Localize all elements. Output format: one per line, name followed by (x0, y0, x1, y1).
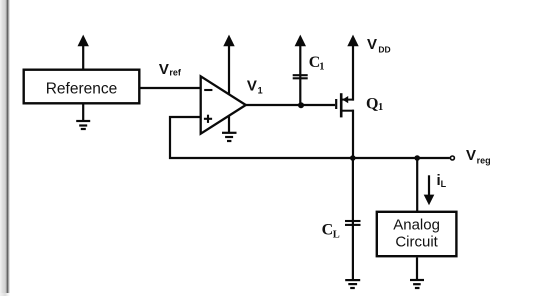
svg-text:V: V (159, 61, 169, 78)
svg-text:L: L (441, 179, 447, 189)
svg-text:C: C (322, 221, 334, 238)
svg-text:Reference: Reference (46, 81, 118, 98)
svg-text:1: 1 (378, 102, 383, 113)
svg-text:1: 1 (319, 62, 324, 73)
svg-text:L: L (333, 229, 340, 240)
svg-text:V: V (466, 147, 476, 164)
svg-text:reg: reg (477, 155, 491, 165)
svg-text:Analog: Analog (393, 216, 440, 233)
svg-text:1: 1 (258, 86, 263, 96)
svg-text:V: V (367, 36, 377, 53)
svg-text:ref: ref (169, 68, 182, 78)
svg-text:V: V (247, 78, 257, 95)
svg-text:Q: Q (366, 96, 378, 113)
svg-text:DD: DD (378, 45, 390, 55)
svg-text:Circuit: Circuit (395, 233, 438, 250)
